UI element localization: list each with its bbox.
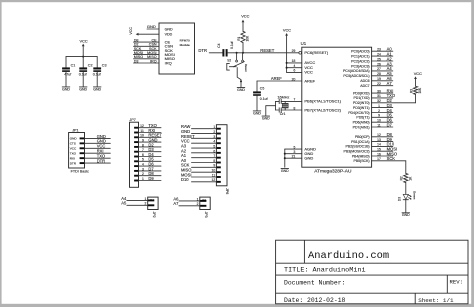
svg-text:PC2(ADC2): PC2(ADC2)	[351, 59, 369, 63]
U1 pin 25 PC2(ADC2) net A2	[351, 56, 393, 63]
wire JP6 pin 5 net A3	[181, 143, 216, 148]
svg-text:16MHz: 16MHz	[277, 95, 289, 99]
U1 pin 7 PB6(XTAL1/TOSC1)	[293, 98, 341, 104]
led D3 Green	[397, 191, 416, 212]
svg-text:D3: D3	[134, 59, 139, 63]
svg-text:Date: 2012-02-18: Date: 2012-02-18	[284, 297, 346, 304]
wire JP7 pin 5 net D5	[139, 157, 162, 162]
svg-text:C1: C1	[71, 63, 76, 67]
wire net D3 to RFM IRQ pin	[134, 59, 160, 63]
svg-text:2: 2	[145, 202, 147, 206]
crystal resonator Cr1 16MHz	[276, 95, 302, 116]
svg-text:1: 1	[378, 104, 380, 108]
node junction GND pin3	[284, 153, 286, 155]
resistor R1 10K	[237, 31, 250, 53]
svg-text:VCC: VCC	[129, 27, 133, 35]
U1 pin 17 PB5(SCK) net SCK	[353, 156, 405, 163]
U1 pin 23 PC0(ADC0) net A0	[351, 47, 393, 54]
U1 pin 3 GND	[285, 150, 314, 156]
svg-text:GND: GND	[147, 24, 156, 29]
wire JP6 pin 9 net SCK	[181, 163, 216, 168]
U1 pin 32 PD2(INT0) net D2	[353, 98, 416, 105]
svg-text:PD4(XCK/T0): PD4(XCK/T0)	[348, 111, 369, 115]
svg-text:Anarduino.com: Anarduino.com	[308, 250, 389, 262]
wire JP6 pin 1 net RAW	[181, 124, 216, 129]
svg-text:1: 1	[197, 197, 199, 201]
svg-text:29: 29	[292, 49, 296, 53]
RF module U2 RFM70	[159, 23, 195, 74]
U1 pin 16 PB4(MISO) net MISO	[352, 151, 397, 158]
svg-text:0.1uf: 0.1uf	[79, 73, 87, 77]
svg-text:PD6(AIN0): PD6(AIN0)	[353, 121, 370, 125]
svg-text:5: 5	[213, 144, 215, 148]
svg-text:C3: C3	[102, 63, 107, 67]
wire JP6 pin 4 net VCC	[181, 139, 216, 144]
svg-text:CTS: CTS	[70, 142, 76, 146]
svg-text:GND: GND	[70, 137, 78, 141]
svg-text:11: 11	[140, 129, 144, 133]
node junction GND pin21	[284, 157, 286, 159]
svg-text:Sheet: 1/1: Sheet: 1/1	[418, 297, 454, 304]
svg-text:10K: 10K	[418, 87, 422, 94]
node junction VCC/caps	[82, 56, 84, 58]
wire JP7 pin 6 net D4	[139, 152, 162, 157]
svg-text:6: 6	[213, 149, 215, 153]
capacitor C4 0.1uf	[217, 41, 237, 56]
svg-text:C5: C5	[260, 87, 265, 91]
svg-text:2: 2	[142, 172, 144, 176]
U1 pin 10 PD6(AIN0) net D6	[353, 118, 393, 125]
svg-text:PD7(AIN1): PD7(AIN1)	[353, 125, 370, 129]
ground (U1)	[281, 168, 289, 172]
wire JP2 pin 2 net A5	[121, 201, 147, 206]
svg-text:GND: GND	[79, 87, 87, 91]
svg-text:9: 9	[142, 139, 144, 143]
svg-text:0.1uf: 0.1uf	[93, 73, 101, 77]
svg-text:PC1(ADC1): PC1(ADC1)	[351, 54, 369, 58]
wire JP1 pin 5 net TXO	[85, 154, 111, 159]
svg-text:TXO: TXO	[70, 151, 77, 155]
wire JP1 pin 1 net GND	[85, 134, 111, 139]
svg-text:17: 17	[377, 157, 381, 161]
U1 pin 6 VCC	[287, 69, 313, 75]
svg-text:0.1uf: 0.1uf	[260, 97, 268, 101]
svg-text:ADC6: ADC6	[360, 79, 369, 83]
svg-text:30: 30	[377, 89, 381, 93]
wire JP6 pin 3 net RESET	[181, 134, 216, 139]
svg-text:SCK: SCK	[387, 156, 396, 161]
svg-text:24: 24	[377, 52, 381, 56]
svg-text:28: 28	[377, 72, 381, 76]
ground (LED)	[402, 213, 410, 217]
wire net SCK to RFM SCK pin	[134, 47, 160, 51]
svg-text:RESET: RESET	[260, 48, 274, 53]
U1 pin 11 PD7(AIN1) net D7	[353, 122, 393, 129]
wire JP7 pin 4 net D6	[139, 162, 162, 167]
ic U1 ATmega328P-AU	[301, 41, 372, 174]
svg-text:7: 7	[213, 154, 215, 158]
svg-text:PB1(OC1A): PB1(OC1A)	[351, 140, 369, 144]
svg-text:32: 32	[377, 99, 381, 103]
U1 pin 21 GND	[285, 155, 314, 161]
wire JP6 pin 12 net D10	[181, 177, 216, 182]
title block	[276, 240, 468, 304]
svg-text:PC4(ADC4/SDA): PC4(ADC4/SDA)	[343, 69, 370, 73]
svg-text:IRQ: IRQ	[165, 60, 172, 65]
wire JP7 pin 3 net D7	[139, 166, 162, 171]
svg-text:A7: A7	[173, 201, 179, 206]
svg-text:TITLE: AnarduinoMini: TITLE: AnarduinoMini	[284, 267, 366, 275]
power net VCC to RFM VDD pin (left arrow)	[129, 27, 159, 36]
svg-text:12: 12	[212, 178, 216, 182]
svg-text:A5: A5	[121, 201, 127, 206]
svg-text:31: 31	[377, 94, 381, 98]
U1 pin 19 ADC6 net A6	[360, 76, 393, 83]
svg-text:2: 2	[213, 130, 215, 134]
svg-text:PB5(SCK): PB5(SCK)	[353, 159, 369, 163]
svg-text:3: 3	[142, 167, 144, 171]
wire JP7 pin 9 net GND	[139, 138, 162, 143]
svg-text:AREF: AREF	[271, 76, 282, 81]
wire U1 ground bus	[284, 149, 286, 167]
svg-text:9: 9	[213, 164, 215, 168]
svg-text:RXI: RXI	[70, 156, 75, 160]
svg-text:14: 14	[377, 143, 381, 147]
svg-text:JP2: JP2	[152, 212, 156, 218]
svg-text:GND: GND	[62, 87, 70, 91]
svg-text:Document Number:: Document Number:	[284, 279, 345, 286]
svg-text:16: 16	[377, 152, 381, 156]
wire JP7 pin 12 net TXO	[139, 123, 162, 128]
wire JP6 pin 2 net GND	[181, 129, 216, 134]
U1 pin 18 AVCC	[287, 59, 316, 65]
capacitor C2 0.1uf	[79, 57, 93, 87]
svg-text:27: 27	[377, 67, 381, 71]
svg-text:RFM70: RFM70	[180, 38, 190, 42]
U1 pin 31 PD1(TXD) net TXO	[353, 93, 395, 100]
svg-text:GND: GND	[165, 27, 173, 31]
resistor R3 10K	[409, 86, 422, 103]
svg-text:JP6: JP6	[225, 188, 229, 194]
svg-text:VCC: VCC	[414, 71, 422, 76]
svg-text:47uf: 47uf	[64, 73, 71, 77]
svg-text:1: 1	[142, 177, 144, 181]
svg-text:0.1uf: 0.1uf	[230, 41, 234, 48]
svg-text:VCC: VCC	[283, 28, 291, 33]
svg-text:4: 4	[142, 163, 144, 167]
wire JP7 pin 10 net RESET	[139, 133, 163, 138]
connector JP3 (A6/A7)	[200, 197, 210, 218]
svg-text:9: 9	[378, 114, 380, 118]
capacitor C5 0.1uf	[253, 87, 268, 111]
power symbol VCC (U1 supply bus)	[283, 28, 291, 73]
node junction VCC pin4	[286, 67, 288, 69]
svg-text:AREF: AREF	[304, 78, 315, 83]
connector JP1 FTDI Basic	[69, 128, 89, 173]
svg-text:8: 8	[213, 159, 215, 163]
svg-text:PB3(MOSI/OC2): PB3(MOSI/OC2)	[344, 150, 370, 154]
svg-text:PD0(RXD): PD0(RXD)	[353, 91, 370, 95]
svg-text:VDD: VDD	[165, 33, 173, 37]
U1 pin 13 PB1(OC1A) net D9	[351, 137, 393, 144]
wire JP7 pin 8 net D2	[139, 142, 162, 147]
svg-text:REV:: REV:	[450, 279, 463, 286]
ground (under C1)	[62, 87, 70, 91]
svg-text:13: 13	[377, 138, 381, 142]
svg-text:C4: C4	[217, 43, 221, 47]
wire JP1 pin 4 net RXI	[85, 149, 111, 154]
wire JP6 pin 7 net A1	[181, 153, 216, 158]
svg-text:8: 8	[142, 143, 144, 147]
svg-text:22: 22	[377, 82, 381, 86]
svg-text:12: 12	[377, 133, 381, 137]
wire JP2 pin 1 net A4	[121, 196, 147, 201]
svg-text:PC5(ADC5/SCL): PC5(ADC5/SCL)	[343, 74, 369, 78]
capacitor C1 47uf	[62, 57, 75, 87]
wire JP1 pin 3 net VCC	[85, 144, 111, 149]
svg-text:PB2(SS/OC1B): PB2(SS/OC1B)	[345, 145, 369, 149]
U1 pin 28 PC5(ADC5/SCL) net A5	[343, 71, 392, 78]
capacitor C3 0.1uf	[93, 57, 107, 87]
svg-text:PD5(T1): PD5(T1)	[356, 116, 369, 120]
svg-text:6: 6	[142, 153, 144, 157]
ground (under C2)	[79, 87, 87, 91]
svg-text:26: 26	[377, 62, 381, 66]
U1 pin 12 PB0(ICP) net D8	[355, 132, 393, 139]
svg-text:PD3(INT1): PD3(INT1)	[353, 106, 370, 110]
svg-text:3: 3	[213, 135, 215, 139]
svg-text:ATmega328P-AU: ATmega328P-AU	[314, 169, 352, 175]
svg-text:PB7(XTAL2/TOSC2): PB7(XTAL2/TOSC2)	[304, 107, 341, 112]
U1 pin 4 VCC	[287, 64, 313, 70]
svg-text:PB0(ICP): PB0(ICP)	[355, 135, 370, 139]
svg-text:D9: D9	[148, 176, 154, 181]
node junction S2/GND	[240, 80, 242, 82]
U1 pin 26 PC3(ADC3) net A3	[351, 61, 393, 68]
connector JP2 (A4/A5)	[148, 197, 158, 218]
wire GND net to RFM GND pin	[147, 24, 159, 29]
node DTR net	[198, 48, 222, 53]
power symbol VCC (R1)	[241, 14, 249, 32]
svg-text:VCC: VCC	[241, 14, 249, 19]
svg-text:GND: GND	[281, 169, 289, 173]
wire JP1 pin 2 net GND	[85, 139, 111, 144]
node junction AVCC	[286, 62, 288, 64]
svg-text:PD2(INT0): PD2(INT0)	[353, 101, 370, 105]
svg-text:FTDI Basic: FTDI Basic	[71, 170, 89, 174]
svg-text:PC0(ADC0): PC0(ADC0)	[351, 50, 369, 54]
svg-text:11: 11	[377, 123, 381, 127]
U1 pin 5 AGND	[285, 145, 316, 151]
svg-text:DTR: DTR	[70, 161, 77, 165]
U1 pin 30 PD0(RXD) net RXI	[353, 88, 393, 95]
svg-text:10K: 10K	[246, 35, 250, 42]
svg-text:VCC: VCC	[79, 38, 87, 43]
wire JP3 pin 2 net A7	[173, 201, 199, 206]
svg-text:PB6(XTAL1/TOSC1): PB6(XTAL1/TOSC1)	[304, 99, 341, 104]
ground (under C3)	[93, 87, 101, 91]
wire RESET net	[237, 48, 299, 53]
svg-text:C2: C2	[88, 63, 93, 67]
svg-text:GND: GND	[253, 111, 261, 115]
wire resonator GND tap	[266, 106, 276, 116]
svg-text:15: 15	[377, 148, 381, 152]
svg-text:D10: D10	[181, 177, 189, 182]
svg-text:D7: D7	[387, 122, 393, 127]
power symbol VCC (cap bank)	[79, 38, 87, 56]
svg-text:PD1(TXD): PD1(TXD)	[353, 96, 369, 100]
svg-text:ADC7: ADC7	[360, 84, 369, 88]
connector JP7	[129, 118, 138, 187]
svg-text:IRQ: IRQ	[150, 59, 157, 63]
U1 pin 14 PB2(SS/OC1B) net D10	[345, 142, 394, 149]
svg-text:D3: D3	[397, 197, 401, 201]
svg-text:11: 11	[212, 173, 216, 177]
svg-text:10: 10	[212, 169, 216, 173]
svg-text:S2: S2	[227, 58, 231, 62]
wire JP6 pin 8 net A0	[181, 158, 216, 163]
svg-text:JP3: JP3	[204, 212, 208, 218]
svg-text:VCC: VCC	[304, 70, 313, 75]
svg-text:23: 23	[377, 48, 381, 52]
svg-text:R3: R3	[409, 89, 413, 93]
wire net D8 to RFM CE pin	[134, 39, 160, 43]
svg-text:R2: R2	[400, 176, 404, 180]
svg-text:19: 19	[377, 77, 381, 81]
wire cap bank top rail	[66, 56, 97, 58]
wire net MOSI to RFM MOSI pin	[134, 51, 160, 55]
wire JP7 pin 11 net RXI	[139, 128, 162, 133]
U1 pin 8 PB7(XTAL2/TOSC2)	[293, 106, 341, 112]
wire JP7 pin 2 net D8	[139, 171, 162, 176]
svg-text:PB4(MISO): PB4(MISO)	[352, 154, 370, 158]
wire JP6 pin 11 net MOSI	[181, 172, 216, 177]
wire net MISO to RFM MISO pin	[134, 55, 160, 59]
svg-text:Green: Green	[412, 191, 416, 200]
wire SCK to R2	[405, 161, 407, 174]
svg-text:U1: U1	[301, 41, 307, 46]
svg-text:12: 12	[140, 124, 144, 128]
svg-text:GND: GND	[237, 88, 245, 92]
svg-text:R1: R1	[237, 36, 241, 40]
U1 pin 2 PD4(XCK/T0) net D4	[348, 108, 393, 115]
svg-text:Cr1: Cr1	[280, 112, 286, 116]
svg-text:A7: A7	[387, 81, 393, 86]
svg-text:VCC: VCC	[70, 146, 77, 150]
connector JP6	[216, 125, 229, 195]
wire JP7 pin 1 net D9	[139, 176, 162, 181]
ground (under S2)	[237, 88, 245, 92]
U1 pin 1 PD3(INT1) net D3	[353, 103, 393, 110]
switch S2 Reset pushbutton	[227, 53, 248, 87]
wire net D2 to RFM CSN pin	[134, 43, 160, 47]
svg-text:JP7: JP7	[129, 118, 135, 122]
U1 pin 29 PC6(RESET)	[292, 49, 329, 55]
svg-text:GND: GND	[93, 87, 101, 91]
svg-text:1: 1	[145, 197, 147, 201]
wire JP3 pin 1 net A6	[173, 196, 199, 201]
U1 pin 24 PC1(ADC1) net A1	[351, 51, 393, 58]
U1 pin 20 AREF	[257, 77, 316, 83]
resistor R2 1K	[400, 173, 413, 194]
wire AREF	[257, 76, 282, 91]
svg-text:GND: GND	[304, 156, 313, 161]
svg-text:PC3(ADC3): PC3(ADC3)	[351, 64, 369, 68]
svg-text:2: 2	[378, 109, 380, 113]
U1 pin 9 PD5(T1) net D5	[356, 113, 392, 120]
svg-text:2: 2	[197, 202, 199, 206]
svg-text:DTR: DTR	[97, 159, 105, 164]
node junction R1/RESET	[242, 52, 244, 54]
svg-text:Module: Module	[180, 43, 190, 47]
svg-text:25: 25	[377, 57, 381, 61]
svg-text:10: 10	[377, 119, 381, 123]
power symbol VCC (R3)	[414, 71, 422, 86]
svg-text:7: 7	[142, 148, 144, 152]
wire JP1 pin 6 net DTR	[85, 159, 111, 164]
svg-text:GND: GND	[262, 117, 270, 121]
svg-text:5: 5	[142, 158, 144, 162]
wire JP7 pin 7 net D3	[139, 147, 162, 152]
svg-text:4: 4	[213, 140, 215, 144]
node junction C4/S2	[236, 52, 238, 54]
svg-text:1: 1	[213, 125, 215, 129]
wire JP6 pin 10 net MISO	[181, 168, 216, 173]
U1 pin 27 PC4(ADC4/SDA) net A4	[343, 66, 393, 73]
U1 pin 15 PB3(MOSI/OC2) net MOSI	[344, 147, 398, 154]
ground (C5)	[253, 111, 261, 115]
svg-text:GND: GND	[402, 213, 410, 217]
svg-text:PC6(RESET): PC6(RESET)	[304, 50, 328, 55]
ground (resonator)	[262, 116, 270, 120]
svg-text:DTR: DTR	[198, 48, 207, 53]
svg-text:JP1: JP1	[72, 128, 78, 132]
svg-text:Reset: Reset	[244, 64, 248, 72]
svg-text:10: 10	[140, 134, 144, 138]
U1 pin 22 ADC7 net A7	[360, 81, 393, 88]
wire JP6 pin 6 net A2	[181, 148, 216, 153]
